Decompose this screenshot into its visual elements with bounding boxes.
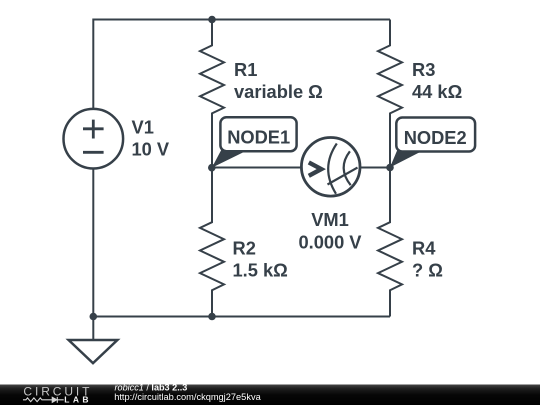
node NODE2 callout — [390, 118, 475, 168]
resistor R3 — [378, 20, 402, 168]
svg-text:LAB: LAB — [64, 394, 92, 404]
wire left rail upper — [92, 19, 94, 110]
resistor R1 — [200, 20, 224, 168]
wire middle left (NODE1 to voltmeter) — [212, 167, 302, 169]
resistor R4 — [378, 168, 402, 317]
junction dot NODE1 — [208, 164, 216, 172]
svg-text:R3: R3 — [412, 59, 435, 80]
wire ground lead — [92, 317, 94, 341]
junction dot NODE2 — [386, 164, 394, 172]
svg-text:V1: V1 — [132, 117, 154, 138]
svg-text:R4: R4 — [412, 238, 436, 259]
wire top rail right segment — [212, 19, 390, 21]
svg-text:robicc1 / lab3 2..3: robicc1 / lab3 2..3 — [115, 382, 188, 392]
svg-text:10 V: 10 V — [132, 138, 170, 159]
svg-text:http://circuitlab.com/ckqmgj27: http://circuitlab.com/ckqmgj27e5kva — [114, 392, 261, 402]
voltage source V1 — [64, 109, 124, 169]
svg-text:R2: R2 — [233, 238, 256, 259]
svg-text:variable Ω: variable Ω — [234, 81, 323, 102]
junction dot bottom center — [208, 313, 216, 321]
resistor R2 — [200, 168, 224, 317]
svg-text:1.5 kΩ: 1.5 kΩ — [233, 260, 288, 281]
ground — [69, 340, 118, 363]
wire bottom rail left segment — [93, 316, 212, 318]
junction dot top (node joining V1, R1, R3) — [208, 16, 216, 24]
svg-text:? Ω: ? Ω — [412, 260, 443, 281]
svg-text:VM1: VM1 — [311, 209, 349, 230]
wire bottom rail right segment — [212, 316, 390, 318]
wire left rail lower — [92, 168, 94, 316]
wire middle right (voltmeter to NODE2) — [360, 167, 391, 169]
svg-text:NODE2: NODE2 — [404, 127, 467, 148]
svg-text:R1: R1 — [234, 59, 257, 80]
svg-text:0.000 V: 0.000 V — [298, 231, 362, 252]
CircuitLab logo resistor-diode glyph — [23, 397, 64, 403]
svg-text:NODE1: NODE1 — [227, 126, 290, 147]
svg-text:44 kΩ: 44 kΩ — [412, 81, 462, 102]
node NODE1 callout — [212, 117, 297, 168]
CircuitLab footer bar — [0, 385, 540, 405]
wire top rail left segment — [93, 19, 212, 21]
junction dot bottom left (ground node) — [90, 313, 98, 321]
voltmeter VM1 — [301, 138, 360, 197]
